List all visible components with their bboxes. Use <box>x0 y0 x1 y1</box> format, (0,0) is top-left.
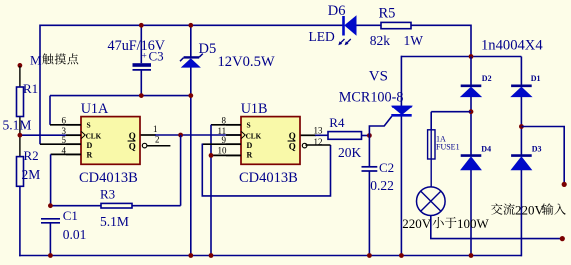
svg-text:R2: R2 <box>24 148 39 163</box>
svg-text:220V: 220V <box>402 216 432 231</box>
label R5 value 82k 1W <box>370 33 424 48</box>
resistor R4 <box>328 115 362 139</box>
label U1A <box>81 101 109 117</box>
label 1n4004X4 <box>481 38 543 54</box>
svg-text:R5: R5 <box>379 6 396 22</box>
label LED <box>309 29 335 44</box>
svg-text:5.1M: 5.1M <box>100 214 129 229</box>
label U1A CD4013B <box>79 170 138 186</box>
svg-text:8: 8 <box>222 116 227 126</box>
zener diode D5 <box>180 54 203 68</box>
svg-text:10: 10 <box>218 145 228 155</box>
junction D5 rail y=96 <box>188 93 193 98</box>
wire top supply rail <box>40 25 471 57</box>
label VS value MCR100-8 <box>339 89 404 105</box>
junction D5 column bottom rail <box>188 253 193 258</box>
resistor R1 <box>17 81 39 117</box>
U1B output pin numbers 13 12 <box>314 125 324 147</box>
wire C3 top connection <box>140 25 142 64</box>
flip-flop U1B CD4013B <box>241 117 300 165</box>
svg-text:47uF/16V: 47uF/16V <box>108 38 166 54</box>
label U1B CD4013B <box>239 170 298 186</box>
label AC 220V input chinese <box>491 202 566 217</box>
wire bottom rail <box>19 255 522 257</box>
label fuse 1A FUSE1 <box>436 135 460 152</box>
svg-text:D: D <box>247 141 253 150</box>
LED D6 <box>344 16 357 36</box>
thyristor VS MCR100-8 <box>391 106 411 115</box>
diode D1 <box>511 86 532 97</box>
label C1 value 0.01 <box>63 227 87 242</box>
capacitor C3 electrolytic <box>133 63 152 70</box>
svg-text:13: 13 <box>314 125 324 135</box>
svg-text:CD4013B: CD4013B <box>239 170 298 186</box>
wire D2 column <box>470 57 472 256</box>
wire AC terminal 1 <box>521 127 564 185</box>
U1B Q-bar bubble pin 12 <box>302 143 307 148</box>
svg-text:R3: R3 <box>100 187 115 202</box>
svg-text:12V0.5W: 12V0.5W <box>218 54 275 70</box>
svg-text:220V: 220V <box>515 202 545 217</box>
junction C2 bottom rail <box>367 253 372 258</box>
svg-text:5: 5 <box>62 135 67 145</box>
svg-text:4: 4 <box>62 145 67 155</box>
label C3 value 47uF/16V <box>108 38 166 54</box>
label U1B <box>241 101 268 117</box>
svg-text:D5: D5 <box>199 41 217 57</box>
wire U1B pin 10 R <box>211 154 241 156</box>
wire touch node to U1A pin 3 CLK <box>20 134 81 136</box>
svg-text:LED: LED <box>309 29 335 44</box>
resistor R2 <box>17 148 39 186</box>
wire left vertical from top rail to U1A pin 5 <box>40 25 81 145</box>
diode D3 <box>511 156 532 170</box>
svg-text:5.1M: 5.1M <box>3 117 32 132</box>
capacitor C2 <box>362 160 395 175</box>
U1A pin labels inside <box>81 121 136 160</box>
svg-text:2: 2 <box>155 135 160 145</box>
wire VDD rail to U1A pin 6 <box>50 96 81 125</box>
wire U1A Q-bar stub pin 2 <box>147 145 170 147</box>
wire SCR anode <box>400 56 402 106</box>
U1A pin stubs left <box>66 125 81 155</box>
svg-text:Q: Q <box>129 142 136 152</box>
junction U1B ground column bottom rail <box>209 253 214 258</box>
wire D5 cathode column to bottom rail <box>190 67 192 256</box>
label R4 value 20K <box>338 145 362 160</box>
svg-text:9: 9 <box>222 135 227 145</box>
svg-text:D: D <box>87 141 93 150</box>
label R2 value 2M <box>22 167 41 182</box>
svg-text:MCR100-8: MCR100-8 <box>339 89 404 105</box>
label D6 designator <box>328 3 346 19</box>
svg-text:1W: 1W <box>404 33 424 48</box>
wire SCR gate <box>369 116 391 135</box>
wire M to R1 <box>19 66 21 87</box>
U1A Q-bar bubble pin 2 <box>142 143 147 148</box>
node M touch point dot <box>18 63 23 68</box>
label lamp 220V less-than 100W <box>402 216 489 231</box>
svg-text:CD4013B: CD4013B <box>79 170 138 186</box>
svg-text:S: S <box>247 121 251 130</box>
label D2 <box>482 74 492 83</box>
label C3 plus polarity <box>142 52 147 62</box>
label M touch terminal <box>30 53 42 68</box>
wire U1B pin 13 Q to R4 <box>300 134 328 136</box>
svg-text:1n4004X4: 1n4004X4 <box>481 38 543 54</box>
flip-flop U1A CD4013B <box>81 117 140 165</box>
junction fuse tap D2/D4 <box>469 109 474 114</box>
junction C1 bottom rail <box>48 253 53 258</box>
U1A output pin numbers 1 2 <box>153 124 160 144</box>
svg-text:S: S <box>87 121 91 130</box>
svg-text:Q: Q <box>289 142 296 152</box>
svg-text:D2: D2 <box>482 74 492 83</box>
capacitor C1 <box>41 208 78 223</box>
svg-text:82k: 82k <box>370 33 391 48</box>
U1B pin labels inside <box>241 121 296 160</box>
label C2 value 0.22 <box>370 178 394 193</box>
svg-text:C1: C1 <box>63 208 78 223</box>
wire horizontal rail y=96 (C3/D5 node) <box>50 95 191 97</box>
svg-text:2M: 2M <box>22 167 41 182</box>
wire D1 column <box>520 57 522 257</box>
junction pin10 on ground column <box>209 153 214 158</box>
wire U1B pin 8 S to ground column <box>211 125 241 256</box>
wire C2 top <box>368 136 370 167</box>
wire R3 left to C1 node <box>50 205 101 207</box>
label D5 designator <box>199 41 217 57</box>
wire R3 right <box>132 205 181 207</box>
junction R1/R2/CLK <box>18 133 23 138</box>
svg-text:CLK: CLK <box>246 132 262 140</box>
label C3 designator <box>149 49 164 64</box>
junction AC terminal tap D1/D3 <box>519 124 524 129</box>
svg-text:R: R <box>87 151 93 160</box>
svg-text:0.01: 0.01 <box>63 227 87 242</box>
label VS designator <box>369 69 388 85</box>
junction C3 top rail <box>139 23 144 28</box>
svg-text:0.22: 0.22 <box>370 178 394 193</box>
resistor R3 <box>100 187 132 209</box>
wire lamp bottom to AC terminal 2 <box>431 215 563 238</box>
junction C3 rail y=96 <box>139 93 144 98</box>
svg-text:100W: 100W <box>457 216 490 231</box>
wire D5 anode from top rail <box>190 25 192 58</box>
node AC terminal 2 dot <box>560 236 565 241</box>
wire R2 to bottom rail <box>19 186 21 256</box>
wire Q1 junction down to R3 <box>180 135 182 206</box>
label touch point chinese <box>42 53 78 64</box>
label R3 value 5.1M <box>100 214 129 229</box>
wire VS top rail to bridge <box>401 56 521 58</box>
svg-text:Q: Q <box>289 131 296 141</box>
wire R4 right to gate node <box>362 135 370 137</box>
junction D4 bottom rail <box>469 253 474 258</box>
label D5 value 12V0.5W <box>218 54 275 70</box>
svg-text:D6: D6 <box>328 3 346 19</box>
wire fuse through lamp top <box>430 129 432 187</box>
svg-text:M: M <box>30 53 42 68</box>
svg-text:D4: D4 <box>481 145 491 154</box>
node AC terminal 1 dot <box>562 182 567 187</box>
wire SCR cathode to bottom rail <box>400 116 402 256</box>
label D1 <box>531 74 541 83</box>
svg-text:VS: VS <box>369 69 388 85</box>
U1A pin numbers 6 3 5 4 <box>62 116 67 156</box>
svg-text:20K: 20K <box>338 145 362 160</box>
wire R1 to R2 junction <box>19 117 21 157</box>
svg-text:D1: D1 <box>531 74 541 83</box>
fuse FUSE1 <box>428 130 435 159</box>
label R1 value 5.1M <box>3 117 32 132</box>
junction Q1/R3 node <box>178 133 183 138</box>
label D4 <box>481 145 491 154</box>
U1B pin numbers 8 11 9 10 <box>218 116 228 156</box>
LED D6 arrows <box>338 39 351 45</box>
wire C1 to bottom rail <box>49 223 51 256</box>
svg-text:R: R <box>247 151 253 160</box>
junction SCR bottom rail <box>399 253 404 258</box>
svg-text:R4: R4 <box>329 115 345 130</box>
wire C2 bottom to rail <box>368 171 370 256</box>
svg-text:C2: C2 <box>379 160 394 175</box>
diode D4 <box>461 156 482 170</box>
junction C1/R3/pin4 node <box>48 203 53 208</box>
wire U1B pin 9 D to Q-bar pin 12 <box>202 144 330 196</box>
svg-text:CLK: CLK <box>86 132 102 140</box>
lamp <box>417 187 446 216</box>
svg-text:FUSE1: FUSE1 <box>436 143 460 152</box>
svg-text:12: 12 <box>314 137 323 147</box>
junction bridge top feed <box>469 54 474 59</box>
label D3 <box>532 145 542 154</box>
wire U1A pin 4 to C1/R3 node <box>51 154 81 205</box>
svg-text:U1A: U1A <box>81 101 109 117</box>
svg-text:1: 1 <box>153 124 158 134</box>
wire C3 bottom to rail <box>140 70 142 96</box>
svg-text:R1: R1 <box>23 81 38 96</box>
wire fuse top tap <box>431 112 471 131</box>
wire U1A Q pin 1 to U1B CLK pin 11 <box>140 134 241 136</box>
diode D2 <box>461 86 482 97</box>
svg-text:D3: D3 <box>532 145 542 154</box>
svg-text:6: 6 <box>62 116 67 126</box>
U1B pin stubs left <box>226 125 241 156</box>
svg-text:Q: Q <box>129 131 136 141</box>
resistor R5 <box>379 6 412 29</box>
junction D5 top rail <box>188 23 193 28</box>
svg-text:U1B: U1B <box>241 101 268 117</box>
junction R4/gate/C2 node <box>367 133 372 138</box>
